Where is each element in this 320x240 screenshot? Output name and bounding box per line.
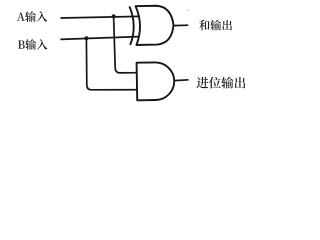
label carry output text 进位输出 (196, 77, 208, 88)
wire A input horizontal (60, 16, 140, 18)
label A input text A输入 (17, 13, 25, 21)
junction node B dot (84, 36, 88, 40)
wire A branch drop to AND upper input (114, 16, 137, 73)
XOR gate U1 body (136, 5, 174, 45)
wire sum output (174, 24, 189, 26)
wire B branch drop to AND lower input (86, 38, 136, 90)
wire carry output (174, 79, 188, 82)
junction node A dot (112, 14, 116, 18)
wire B input horizontal (60, 37, 139, 40)
XOR gate U1 (sum) input double-curve (129, 5, 174, 45)
faint speck (187, 9, 189, 11)
label B input text B输入 (18, 40, 25, 48)
AND gate U2 (carry) (137, 62, 175, 100)
label sum output text 和输出 (199, 20, 209, 30)
